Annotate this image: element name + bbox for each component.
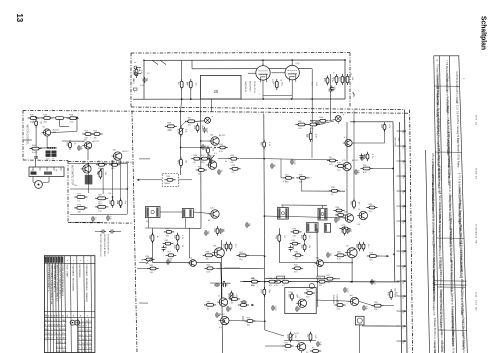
hook mark xyxy=(353,92,355,96)
wire - right bus outer xyxy=(405,110,407,353)
wire - jack feed xyxy=(317,279,319,307)
resistor R51 xyxy=(164,228,175,237)
wire xyxy=(291,60,293,65)
transformer T3 can xyxy=(278,208,289,220)
svg-text:MOTOR CONTROL: MOTOR CONTROL xyxy=(26,125,28,146)
wire xyxy=(384,130,386,143)
transistor Q4 xyxy=(112,150,122,161)
wire - automatic stop frame bottom xyxy=(68,222,133,225)
resistor R12 xyxy=(65,140,75,149)
svg-text:POSITION (KOPF 7): POSITION (KOPF 7) xyxy=(107,234,109,254)
node - junction xyxy=(35,116,37,118)
svg-text:Schaltplan: Schaltplan xyxy=(480,16,487,50)
svg-text:22k: 22k xyxy=(308,245,310,248)
node - junction xyxy=(112,196,114,198)
svg-text:s: s xyxy=(86,334,87,336)
resistor R81 xyxy=(343,74,353,85)
svg-text:6,8k: 6,8k xyxy=(315,82,317,86)
resistor R80 xyxy=(227,291,237,302)
resistor R34 xyxy=(229,165,240,174)
wire - bus d xyxy=(264,114,265,331)
wire xyxy=(184,218,186,229)
wire xyxy=(70,188,127,190)
wire xyxy=(201,140,211,142)
wire - automatic stop frame top xyxy=(68,161,133,164)
wire - bus stub xyxy=(397,310,405,312)
svg-text:s: s xyxy=(82,334,83,336)
wire - motor control frame bottom xyxy=(23,159,68,162)
svg-text:END-PENT.: END-PENT. xyxy=(249,81,251,93)
node - junction xyxy=(392,168,394,170)
node - junction xyxy=(404,175,406,177)
svg-text:1,2 56: 1,2 56 xyxy=(475,232,477,239)
svg-text:AC117: AC117 xyxy=(123,150,130,153)
resistor R68 xyxy=(293,252,304,261)
svg-text:PUSH-PULL: PUSH-PULL xyxy=(253,81,255,94)
wire - tube V2 cathode xyxy=(291,80,293,99)
resistor R57 xyxy=(222,242,232,251)
wire - upper inner right xyxy=(344,60,346,99)
parts table row separators xyxy=(434,86,466,330)
wire - bus stub xyxy=(397,145,405,147)
node - junction xyxy=(264,215,266,217)
tube V2 EL95 xyxy=(285,63,299,82)
resistor R95 xyxy=(363,152,373,161)
node - junction xyxy=(180,111,182,113)
node - junction xyxy=(404,145,406,147)
node - junction xyxy=(200,147,202,149)
svg-text:NETZTEIL: NETZTEIL xyxy=(393,138,395,149)
wire xyxy=(190,88,192,99)
wire - motor control frame left xyxy=(22,110,24,160)
resistor R11 xyxy=(29,145,41,154)
wire - border stub c xyxy=(139,302,148,304)
svg-text:re. Feder kpl. Schraube: re. Feder kpl. Schraube xyxy=(432,279,435,303)
node - junction xyxy=(190,98,192,100)
wire xyxy=(181,147,212,149)
resistor R37 xyxy=(295,121,307,130)
function table mid separator xyxy=(44,310,95,312)
wire - bus stub xyxy=(397,130,405,132)
wire - V2 grid xyxy=(272,72,285,74)
svg-text:56 125 56 TK: 56 125 56 TK xyxy=(440,342,442,353)
wire xyxy=(218,158,231,160)
wire xyxy=(181,60,183,81)
wire - upper board frame right xyxy=(349,53,351,108)
svg-text:AC151: AC151 xyxy=(219,134,226,137)
svg-text:4,7k: 4,7k xyxy=(388,125,390,129)
potentiometer arrow xyxy=(229,294,234,299)
resistor R104 xyxy=(238,301,249,310)
transistor Q2 xyxy=(83,140,92,149)
node - junction xyxy=(393,254,395,256)
wire xyxy=(310,140,312,142)
tube V1 EL95 xyxy=(256,64,270,83)
resistor R36 xyxy=(164,176,175,185)
wire - stage1 emitter rail xyxy=(153,261,221,263)
wire xyxy=(372,168,393,170)
wire - supply rail lower xyxy=(243,280,400,283)
transformer T6 can xyxy=(324,224,330,233)
node - junction xyxy=(350,281,352,283)
wire xyxy=(62,140,85,142)
svg-text:VERST. EIN-AUS SCHALTER KONTAK: VERST. EIN-AUS SCHALTER KONTAKTE 2b4 xyxy=(50,265,53,305)
svg-text:x: x xyxy=(64,333,65,335)
wire - upper board frame bottom xyxy=(131,107,404,110)
wire xyxy=(284,340,316,342)
svg-text:2,2k: 2,2k xyxy=(70,122,74,124)
svg-text:▪: ▪ xyxy=(67,260,68,263)
svg-text:2,2k: 2,2k xyxy=(168,130,172,132)
wire xyxy=(329,120,335,121)
node - junction xyxy=(120,206,122,208)
wire - lamp lead xyxy=(337,122,339,124)
relay coil K1 xyxy=(56,117,64,120)
wire xyxy=(60,126,69,128)
wire - V1 grid xyxy=(248,72,256,74)
svg-text:8,2k: 8,2k xyxy=(337,259,341,261)
svg-text:0,1 8: 0,1 8 xyxy=(475,300,477,306)
resistor R27 xyxy=(165,123,177,132)
resistor R1 upper xyxy=(177,79,187,90)
wire xyxy=(181,99,182,111)
wire - supply rail lower b xyxy=(265,278,340,280)
resistor R45 xyxy=(297,174,308,183)
svg-text:47n: 47n xyxy=(188,125,191,127)
wire - stage1 mid rail xyxy=(189,228,191,258)
resistor R84 xyxy=(324,275,335,284)
dark blob near Q6 xyxy=(209,159,212,163)
svg-text:RECORDING: RECORDING xyxy=(78,265,80,278)
parts table column line 3 xyxy=(440,56,445,353)
node - junction xyxy=(264,255,266,257)
svg-text:34 12k: 34 12k xyxy=(475,168,477,175)
wire xyxy=(265,330,284,336)
svg-text:20: 20 xyxy=(214,89,219,94)
transformer T4 can xyxy=(318,208,327,220)
svg-text:a1: a1 xyxy=(134,62,136,64)
svg-text:8,2k: 8,2k xyxy=(314,134,316,138)
resistor R46 xyxy=(333,207,344,216)
wire xyxy=(248,254,265,256)
svg-text:*: * xyxy=(445,60,449,61)
wire xyxy=(240,281,249,283)
tape reel symbols xyxy=(70,320,80,325)
resistor R52 xyxy=(173,233,183,242)
resistor R9 xyxy=(67,115,79,124)
pin xyxy=(60,167,62,171)
svg-text:1k: 1k xyxy=(207,308,209,310)
transistor Q16 xyxy=(296,297,306,308)
wire - right bus outer b xyxy=(400,122,402,353)
svg-text:▪: ▪ xyxy=(73,260,74,263)
resistor R60 xyxy=(237,252,249,261)
resistor R89 xyxy=(306,332,316,343)
svg-text:re. 0,1 Ta kpl.: re. 0,1 Ta kpl. xyxy=(448,165,451,179)
resistor R97 xyxy=(217,144,228,153)
resistor R26 xyxy=(95,203,108,212)
resistor R78 xyxy=(249,278,260,287)
transistor Q17 xyxy=(348,295,358,306)
node - junction xyxy=(316,281,318,283)
wire - stage2 mid rail xyxy=(316,228,318,276)
wire - mid link xyxy=(301,190,345,192)
resistor R8 xyxy=(41,114,53,123)
resistor R82 xyxy=(249,278,260,287)
node - junction xyxy=(200,111,202,113)
svg-text:13: 13 xyxy=(15,14,24,23)
svg-text:47n: 47n xyxy=(297,297,300,299)
svg-text:22k: 22k xyxy=(104,172,106,175)
transistor Q14 xyxy=(219,314,229,325)
resistor R76 xyxy=(280,278,291,287)
node - junction xyxy=(263,158,265,160)
wire - cans feed xyxy=(281,204,327,206)
svg-text:EL95 TK 56 Riemen Rö kpl.: EL95 TK 56 Riemen Rö kpl. xyxy=(437,166,439,194)
wire xyxy=(330,74,332,87)
function table column lines xyxy=(47,256,92,353)
transistor Q3 auto stop xyxy=(81,163,91,174)
svg-text:STOP - START: STOP - START xyxy=(66,265,69,279)
pin xyxy=(32,167,34,171)
wire xyxy=(115,231,121,233)
resistor R71 xyxy=(359,242,369,251)
wire xyxy=(330,93,332,120)
node - junction xyxy=(214,147,216,149)
wire xyxy=(160,211,182,213)
wire - bus b xyxy=(200,112,202,229)
svg-text:re. kpl. Schraube Feder m. Fas: re. kpl. Schraube Feder m. Fassung Plati… xyxy=(462,333,465,353)
resistor R43 xyxy=(335,162,346,171)
arrow out xyxy=(387,255,390,257)
resistor R100 xyxy=(329,187,340,196)
resistor R72 xyxy=(334,252,346,261)
wire - feedback top xyxy=(350,121,393,123)
wire xyxy=(70,214,127,216)
node - junction xyxy=(291,98,293,100)
svg-text:0,047: 0,047 xyxy=(294,333,300,335)
resistor R80 xyxy=(380,122,390,131)
node - junction xyxy=(264,281,266,283)
node - junction xyxy=(404,310,406,312)
node - junction xyxy=(344,59,346,61)
wire - motor lead left xyxy=(32,177,34,183)
resistor R87 xyxy=(387,289,397,300)
resistor R29 xyxy=(176,126,186,137)
node - junction xyxy=(404,265,406,267)
svg-text:NETZ: NETZ xyxy=(132,79,134,85)
svg-text:1k: 1k xyxy=(218,296,220,298)
resistor R66 xyxy=(290,240,301,249)
resistor R56 xyxy=(213,226,223,235)
wire xyxy=(191,60,193,69)
svg-text:1k: 1k xyxy=(358,209,360,211)
svg-text:10k: 10k xyxy=(357,224,360,226)
capacitor C17 xyxy=(214,283,220,287)
svg-text:8,2k: 8,2k xyxy=(207,272,211,274)
node - junction xyxy=(76,116,78,118)
svg-text:22k: 22k xyxy=(85,137,88,139)
wire - bus stub xyxy=(397,280,405,282)
wire - bus c xyxy=(221,240,222,353)
switch S1 xyxy=(152,60,158,64)
resistor R90 xyxy=(282,342,293,351)
wire xyxy=(181,122,186,127)
wire - output lead xyxy=(359,325,361,353)
parts table column line 2 xyxy=(434,56,439,353)
function table bottom grid block B xyxy=(56,320,67,353)
transistor Q11 xyxy=(188,257,197,266)
resistor R44 xyxy=(283,174,294,183)
node - junction xyxy=(404,250,406,252)
wire xyxy=(265,345,283,347)
wire xyxy=(378,255,386,257)
resistor R91 xyxy=(310,347,321,353)
node - junction xyxy=(143,59,145,61)
node - junction xyxy=(404,295,406,297)
resistor pack dark pair b xyxy=(46,154,51,157)
wire xyxy=(43,182,50,183)
wire - border stub b xyxy=(139,158,150,160)
svg-text:2,2k: 2,2k xyxy=(314,335,316,339)
resistor R82 xyxy=(244,317,255,326)
resistor R77 xyxy=(316,278,327,287)
connector text xyxy=(31,172,37,175)
wire xyxy=(216,267,265,269)
lamp La1 xyxy=(205,117,211,123)
svg-text:MOTOR EIN-AUS KONTAKT 1a: MOTOR EIN-AUS KONTAKT 1a xyxy=(47,265,50,293)
svg-text:4,7k: 4,7k xyxy=(274,285,278,287)
svg-text:AC128: AC128 xyxy=(53,129,60,132)
svg-text:1k: 1k xyxy=(74,143,76,145)
svg-text:WICKELTELLER BREMSE HEBEL 6f: WICKELTELLER BREMSE HEBEL 6f xyxy=(61,265,63,297)
wire xyxy=(148,218,150,228)
svg-text:1M: 1M xyxy=(185,160,187,163)
node - junction xyxy=(181,98,183,100)
svg-text:TONIGER: TONIGER xyxy=(332,295,334,305)
transformer T5 can xyxy=(306,223,318,233)
svg-text:47n: 47n xyxy=(295,259,298,261)
wire xyxy=(181,88,183,99)
wire xyxy=(87,149,89,160)
transistor Q20 xyxy=(343,137,352,146)
wire xyxy=(282,205,284,208)
resistor R86 xyxy=(334,301,345,310)
resistor R47 xyxy=(366,204,377,213)
svg-text:4,7k: 4,7k xyxy=(268,142,270,146)
transistor Q18 in box xyxy=(355,316,364,325)
svg-text:1M: 1M xyxy=(296,294,298,297)
svg-text:2,2k: 2,2k xyxy=(294,335,296,339)
wire - screen supply xyxy=(311,69,313,99)
parts table column line 4 xyxy=(449,56,456,353)
parts table long separators xyxy=(434,280,467,282)
terminal xyxy=(134,88,138,90)
wire xyxy=(264,159,330,160)
wire xyxy=(59,120,61,127)
resistor R3 fuse xyxy=(132,67,142,78)
resistor R64 xyxy=(291,228,302,237)
svg-text:+: + xyxy=(212,114,214,118)
wire xyxy=(383,305,394,307)
wire - stage2 emitter rail xyxy=(279,262,353,264)
svg-text:4,7k: 4,7k xyxy=(342,160,346,162)
node - junction xyxy=(262,98,264,100)
svg-text:▪: ▪ xyxy=(80,260,81,263)
wire xyxy=(301,180,303,192)
resistor R41 xyxy=(360,165,372,174)
transformer T2 can xyxy=(182,209,193,218)
wire - bottom rail xyxy=(362,325,400,327)
resistor R73 xyxy=(367,252,379,261)
wire xyxy=(102,168,104,194)
node - junction xyxy=(224,320,226,322)
wire xyxy=(301,351,303,353)
shielded stage box xyxy=(285,288,316,314)
node - junction row xyxy=(47,147,49,149)
node - junction xyxy=(404,280,406,282)
wire xyxy=(139,179,162,181)
wire - collector feed xyxy=(353,111,355,200)
node - junction xyxy=(404,190,406,192)
wire - to bus d xyxy=(229,320,264,323)
resistor R50 xyxy=(148,233,158,244)
svg-text:BANDZUG HEBEL KONTAKT 3c: BANDZUG HEBEL KONTAKT 3c xyxy=(53,265,56,293)
svg-text:47n: 47n xyxy=(146,263,149,265)
jack J1 xyxy=(309,283,314,288)
transistor Q5 xyxy=(209,135,219,146)
transistor Q13 xyxy=(217,296,227,307)
resistor R7 xyxy=(28,114,40,123)
wire xyxy=(264,216,345,218)
switch S2 xyxy=(160,60,166,64)
resistor R85 xyxy=(372,302,384,311)
wire xyxy=(120,160,122,202)
resistor R35 xyxy=(196,166,207,175)
resistor R33 xyxy=(228,155,239,164)
resistor R25 xyxy=(74,204,87,213)
parts table column B text xyxy=(436,64,444,353)
wire xyxy=(351,258,353,282)
wire xyxy=(35,151,37,159)
wire xyxy=(70,221,103,223)
resistor R88 xyxy=(286,332,296,343)
svg-text:Netztrafo Netztrafo Riemen 4,7: Netztrafo Netztrafo Riemen 4,7k xyxy=(450,260,453,293)
pin xyxy=(39,167,41,171)
node - junction xyxy=(351,281,353,283)
svg-text:KOPFHORER: KOPFHORER xyxy=(336,295,338,309)
wire xyxy=(126,163,128,214)
wire - feedback row xyxy=(31,147,57,149)
svg-text:kpl. 0,1 li. 7/8: kpl. 0,1 li. 7/8 xyxy=(456,101,458,115)
svg-text:1k: 1k xyxy=(156,236,158,238)
function table symbol row xyxy=(44,316,95,318)
arrow out b xyxy=(252,304,255,306)
transistor Q9 xyxy=(357,209,367,220)
wire - bus stub xyxy=(397,190,405,192)
wire - tube V1 cathode xyxy=(262,80,264,99)
svg-text:56 7k: 56 7k xyxy=(475,115,477,121)
wire - automatic stop frame left xyxy=(67,161,69,223)
svg-text:4,7k: 4,7k xyxy=(283,181,287,183)
wire xyxy=(33,182,35,183)
node - junction xyxy=(223,281,225,283)
svg-text:6AQ5/EL95: 6AQ5/EL95 xyxy=(244,81,247,93)
capacitor C9 xyxy=(109,230,115,234)
wire - upper inner top xyxy=(144,59,345,61)
wire - bus stub xyxy=(397,265,405,267)
resistor R49 xyxy=(349,199,359,210)
